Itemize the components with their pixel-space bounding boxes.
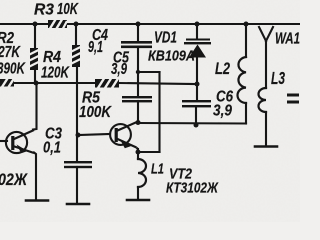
wire emitter link: [138, 151, 160, 153]
svg-text:R3: R3: [34, 2, 54, 19]
wire L3 bottom lead: [265, 112, 267, 145]
inductor L3: [259, 88, 267, 112]
node top R4: [33, 22, 38, 27]
node top line A: [136, 22, 141, 27]
svg-text:390K: 390K: [0, 61, 26, 78]
wire bias rail y83 right of R5: [119, 83, 196, 84]
antenna WA1: [259, 27, 273, 88]
wire line A bottom (C5 to collector): [137, 101, 139, 123]
wire line A top (C4 top lead): [137, 24, 139, 42]
inductor L1: [138, 159, 146, 187]
svg-text:КВ109А: КВ109А: [148, 48, 195, 65]
svg-text:3,9: 3,9: [111, 61, 127, 78]
svg-text:3,9: 3,9: [213, 103, 232, 120]
wire VT1 base lead: [0, 140, 7, 142]
node R4 bottom collector VT1: [34, 81, 39, 86]
wire top rail left: [0, 23, 48, 25]
capacitor C5: [122, 96, 152, 102]
wire top rail right: [67, 23, 300, 25]
capacitor C7 edge: [287, 94, 299, 104]
wire VD1 bottom lead: [196, 57, 198, 84]
node top VD1: [195, 22, 200, 27]
ground bar C3: [67, 203, 89, 206]
svg-text:02Ж: 02Ж: [0, 171, 28, 189]
wire L2 bottom lead: [245, 103, 247, 124]
ground bar L1: [127, 199, 149, 202]
wire feedback branch horizontal: [138, 71, 160, 73]
capacitor C3: [64, 161, 92, 168]
wire C3 bottom lead: [76, 167, 78, 203]
wire L2 top lead: [245, 24, 247, 57]
wire R4 top lead: [34, 24, 36, 48]
node top L2: [244, 22, 249, 27]
node VD1 C6 R5: [195, 82, 200, 87]
wire VT2 emitter node to L1: [137, 149, 139, 159]
node C6 bottom: [194, 123, 199, 128]
svg-text:L3: L3: [271, 68, 285, 88]
wire C6 bottom lead: [195, 107, 197, 125]
capacitor C6: [182, 100, 211, 107]
wire VD1 top lead: [196, 24, 198, 38]
svg-text:10K: 10K: [57, 1, 79, 18]
node VT2 base: [76, 133, 81, 138]
svg-text:L2: L2: [215, 59, 230, 78]
svg-text:9,1: 9,1: [88, 39, 103, 56]
wire C6 top lead: [196, 84, 198, 100]
svg-text:КТ3102Ж: КТ3102Ж: [166, 180, 219, 197]
capacitor C4: [121, 41, 152, 48]
wire R6 top lead: [75, 24, 77, 45]
wire bias rail y83 left: [14, 82, 95, 84]
resistor R4: [30, 48, 39, 70]
svg-text:120K: 120K: [41, 65, 70, 82]
resistor R3: [48, 20, 67, 29]
wire VT1 collector riser: [33, 83, 37, 130]
resistor R5: [95, 79, 119, 89]
svg-text:R4: R4: [43, 49, 61, 66]
node VT2 collector: [136, 120, 141, 125]
wire L1 bottom lead: [137, 187, 139, 199]
varicap VD1: [184, 39, 211, 58]
node feedback branch: [136, 70, 140, 74]
resistor R6: [72, 45, 81, 67]
wire collector tank rail: [138, 122, 246, 125]
node top R6: [74, 22, 79, 27]
wire feedback branch vertical (line B): [158, 72, 160, 152]
node VT2 emitter: [136, 150, 141, 155]
inductor L2: [238, 57, 247, 103]
svg-text:100K: 100K: [79, 104, 112, 121]
wire R4 bottom lead: [34, 70, 36, 83]
wire line A middle (C4 to C5): [137, 47, 139, 96]
resistor R1 390K: [0, 79, 14, 88]
transistor VT2: [110, 122, 138, 150]
transistor VT1: [6, 130, 34, 153]
svg-text:VD1: VD1: [154, 30, 177, 47]
wire VT1 emitter drop: [34, 153, 36, 200]
svg-text:WA1: WA1: [275, 31, 300, 48]
svg-text:0,1: 0,1: [43, 140, 61, 157]
ground bar L3: [255, 145, 277, 148]
svg-text:L1: L1: [151, 161, 164, 178]
ground bar VT1 emitter: [26, 199, 48, 202]
wire R6 bottom / base column: [76, 67, 78, 161]
wire VT2 base: [78, 134, 110, 135]
svg-text:27K: 27K: [0, 44, 21, 61]
